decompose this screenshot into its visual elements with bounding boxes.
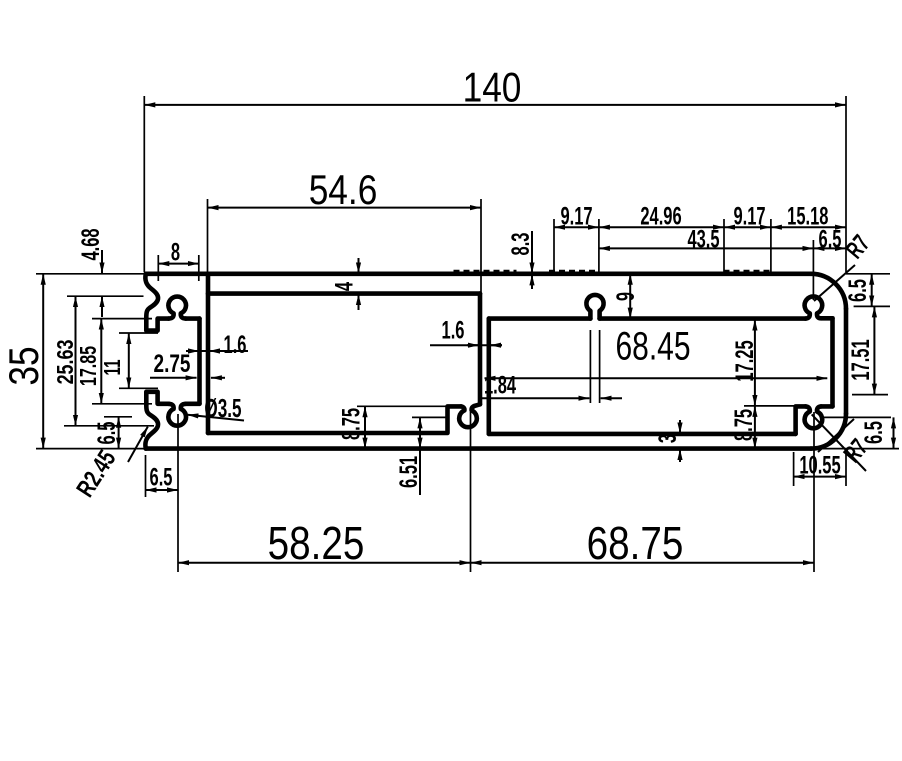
dim 4 arrow down [358, 258, 360, 273]
leader R7 top line [814, 265, 855, 301]
svg-text:9.17: 9.17 [560, 203, 592, 230]
dim 4.68 arrow down [101, 250, 103, 273]
dim 43.5 line [599, 247, 814, 249]
dim 24.96 extension [723, 219, 725, 272]
node left S-hook upper [145, 274, 158, 318]
dim 4.68 arrow up [101, 296, 103, 317]
svg-text:8: 8 [171, 239, 180, 266]
dim 58.25 extension left [177, 414, 179, 572]
svg-text:17.51: 17.51 [848, 339, 875, 380]
dim 3 arrow up [679, 449, 681, 462]
wire outer right wall [844, 309, 849, 414]
svg-text:10.55: 10.55 [799, 452, 840, 479]
dim 35 line [42, 274, 44, 449]
dim 8.75 right line [754, 406, 756, 449]
dim 6.5 top-right extension top surface [846, 273, 890, 275]
dim 54.6 extension left [207, 199, 209, 272]
wire left chamber right wall (divider wall 1) [478, 294, 483, 405]
dim 4.68 extension bottom [67, 295, 144, 297]
wire right chamber left wall (divider wall 2) [486, 319, 491, 434]
node left chamber floor step [208, 406, 461, 433]
svg-text:24.96: 24.96 [640, 203, 681, 230]
dim 58.25 line [178, 562, 471, 564]
svg-text:9: 9 [613, 292, 640, 301]
svg-text:6.5: 6.5 [94, 421, 121, 444]
dim 8.75 left line [364, 406, 366, 448]
leader R7 bottom second line [818, 419, 854, 452]
dim 6.5 left extension [104, 416, 132, 418]
dim 1.6 right line with arrows [430, 344, 502, 346]
dim 9.17 first line [554, 226, 599, 228]
dim 1.84 extension a [589, 330, 591, 403]
dim 35 extension bottom [36, 448, 144, 450]
node upper-left omega screw boss [168, 297, 186, 319]
dim 3 arrow down [679, 420, 681, 434]
dim 68.75 extension right [813, 412, 815, 572]
dim 140 line [144, 104, 846, 106]
dim 68.45 line [485, 377, 828, 379]
dim 10.55 extension right [845, 452, 847, 486]
wire pocket wall vertical [197, 319, 202, 404]
svg-text:11: 11 [100, 359, 126, 375]
dim 10.55 extension left [793, 452, 795, 486]
node left S-hook lower [145, 405, 158, 449]
dim 6.5 bottom-right extension top [824, 416, 891, 418]
dim 24.96 line [599, 226, 724, 228]
dim 2.75 line with arrows [150, 377, 197, 379]
node knurl dashes zone 3 [724, 270, 772, 272]
dim 8.3 stem [531, 231, 533, 283]
dim 8 line [158, 263, 199, 265]
node right chamber floor step [796, 406, 806, 434]
svg-text:140: 140 [463, 65, 522, 112]
dim 6.5 top-right extension bottom [854, 305, 890, 307]
wire top outer surface [146, 271, 811, 276]
dim 9 line [629, 274, 631, 319]
node bottom-right R7 corner arc [811, 414, 846, 449]
svg-text:8.75: 8.75 [338, 408, 365, 440]
svg-text:6.5: 6.5 [861, 421, 888, 444]
dim 6.5 top-right line [871, 274, 873, 307]
dim 8.75 left extension [357, 405, 446, 407]
svg-text:6.51: 6.51 [396, 456, 423, 488]
node lower-left cup screw boss [168, 404, 186, 426]
svg-text:9.17: 9.17 [733, 203, 765, 230]
svg-text:25.63: 25.63 [53, 340, 79, 385]
svg-text:17.25: 17.25 [732, 340, 759, 381]
dim 1.84 extension b [599, 330, 601, 403]
svg-text:43.5: 43.5 [687, 226, 719, 253]
wire stub inner wall to bottom boss [821, 404, 832, 409]
svg-text:6.5: 6.5 [150, 464, 173, 491]
dim 17.51 line [873, 306, 875, 394]
svg-text:1.6: 1.6 [224, 332, 247, 359]
dim 1.6 left line with arrows [186, 350, 248, 352]
dim 9.17 first extension b [598, 219, 600, 272]
dim 54.6 line [208, 207, 482, 209]
dim 58.25 extension right [470, 412, 472, 572]
svg-text:4.68: 4.68 [78, 228, 105, 260]
dim 9.17 second line [724, 226, 771, 228]
node divider bottom cup screw boss [459, 404, 480, 427]
node knurl dashes zone 1 [454, 270, 517, 272]
svg-text:3: 3 [655, 434, 682, 443]
dim 25.63 line [75, 296, 77, 426]
svg-text:68.75: 68.75 [587, 518, 684, 569]
wire stub boss to inner wall top [821, 316, 832, 321]
dim 8.3 arrow up [531, 274, 533, 289]
svg-text:68.45: 68.45 [615, 324, 690, 368]
svg-text:6.5: 6.5 [845, 279, 872, 302]
dim 54.6 extension right [480, 199, 482, 292]
dim 15.18 line [771, 226, 846, 228]
dim 17.51 extension bottom [852, 394, 888, 396]
node top-right omega screw boss [805, 296, 823, 318]
svg-text:1.6: 1.6 [442, 317, 465, 344]
dim 1.84 line with arrows [480, 397, 589, 399]
node left upper square notch [146, 317, 168, 330]
dim 17.25 line [754, 320, 756, 406]
svg-text:58.25: 58.25 [268, 518, 365, 569]
dim 11 extension top [119, 332, 158, 334]
dim 35 extension top [36, 273, 144, 275]
dim 25.63 extension bottom [64, 425, 154, 427]
node knurl dashes zone 2 [549, 270, 600, 272]
wire left chamber left wall [206, 274, 211, 433]
dim 140 extension left [143, 96, 145, 272]
dim 6.5 top row line [813, 247, 846, 249]
dim 140 extension right [845, 96, 847, 272]
leader R7 bottom line [812, 414, 866, 471]
svg-text:4: 4 [331, 282, 358, 291]
dim 4 arrow up [358, 294, 360, 310]
svg-text:8.3: 8.3 [508, 232, 535, 255]
leader R2.45 line [128, 427, 148, 462]
dim 10.55 line [794, 476, 846, 478]
svg-text:1.84: 1.84 [484, 372, 516, 399]
dim 17.85 extension top [92, 318, 152, 320]
wire right chamber floor [489, 432, 796, 437]
wire lower shelf [186, 401, 200, 406]
wire upper shelf to pocket wall [186, 316, 200, 321]
svg-text:17.85: 17.85 [76, 346, 101, 386]
svg-text:6.5: 6.5 [819, 226, 842, 253]
dim 6.51 line [419, 417, 421, 448]
dim 17.85 extension bottom [92, 403, 152, 405]
wire bottom outer surface [146, 446, 811, 451]
dim 11 extension bottom [119, 387, 158, 389]
dim 43.5 extension boss center [812, 240, 814, 300]
dim 6.5 bottom-left extension a [145, 455, 147, 497]
dim 8 extension a [157, 255, 159, 281]
wire right chamber ceiling right part [600, 316, 806, 321]
dim 6.5 bottom-right extension bottom surface [811, 448, 899, 450]
dim 6.5 left line [118, 417, 120, 449]
svg-text:8.75: 8.75 [731, 409, 758, 441]
dim 9.17 first extension a [553, 219, 555, 272]
dim 6.51 extension [412, 416, 448, 418]
dim 17.85 line [100, 319, 102, 404]
dim 8 extension b [198, 255, 200, 281]
dim 11 line [128, 333, 130, 388]
dim 68.75 line [471, 562, 815, 564]
leader diameter 3.5 line [188, 415, 245, 421]
node bottom-right omega screw boss [805, 406, 823, 428]
wire left chamber ceiling [208, 291, 480, 296]
node left lower square notch [146, 392, 168, 405]
svg-text:2.75: 2.75 [154, 349, 191, 377]
dim 6.5 bottom-left line [146, 489, 179, 491]
dim 6.5 bottom-right line [893, 417, 895, 448]
node top-right R7 corner arc [811, 274, 846, 309]
svg-text:35: 35 [1, 346, 48, 385]
dim 8.75 right extension [744, 405, 794, 407]
dim 9.17 second extension [770, 219, 772, 272]
wire right chamber ceiling left part [489, 316, 591, 321]
node keyhole screw channel [586, 295, 603, 319]
dim 8.3 arrow down [531, 258, 533, 273]
svg-text:Ø3.5: Ø3.5 [204, 393, 241, 423]
dim 6.51 stem below [419, 449, 421, 495]
wire inner right wall [830, 318, 835, 406]
svg-text:54.6: 54.6 [309, 167, 378, 214]
